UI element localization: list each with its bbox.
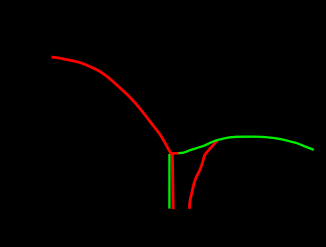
red curve left (descending) branch: [52, 57, 171, 152]
red curve right (rising) branch, drawn under green: [189, 140, 217, 209]
green curve right branch: [169, 137, 313, 154]
red curve horizontal jog at notch top: [170, 152, 179, 155]
red curve vertical notch line: [171, 154, 175, 209]
green curve vertical notch line: [168, 154, 170, 209]
